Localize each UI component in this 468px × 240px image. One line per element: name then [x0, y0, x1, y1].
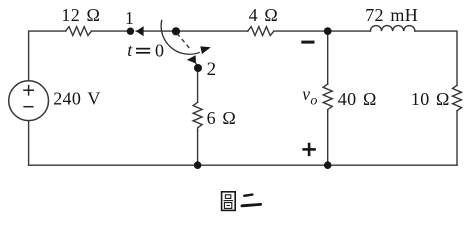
switch dashed blade toward position 2	[177, 33, 191, 50]
wire top-left segment	[29, 31, 66, 81]
switch blade arrowhead at position 2	[187, 55, 196, 63]
voltage source plus mark	[23, 85, 34, 96]
svg-text:12 Ω: 12 Ω	[61, 5, 100, 25]
wire resistor to node 1	[91, 30, 127, 32]
junction dot bottom right (node vo+)	[324, 161, 332, 169]
wire 4 ohm to inductor	[274, 30, 371, 32]
resistor R 10 ohm	[453, 85, 462, 111]
resistor R 6 ohm	[193, 102, 202, 131]
resistor R 40 ohm	[323, 84, 332, 111]
svg-text:0: 0	[155, 40, 164, 60]
caption figure two (CJK drawn)	[222, 192, 261, 211]
svg-text:40 Ω: 40 Ω	[338, 89, 377, 109]
glyph er (two) top stroke	[244, 195, 252, 196]
glyph tu lower inner dash	[227, 205, 230, 207]
inductor L 72 mH	[370, 26, 414, 32]
glyph tu lower box	[224, 203, 231, 209]
svg-text:2: 2	[207, 59, 217, 80]
wire left below source	[28, 121, 30, 166]
switch motion arc arrowhead	[200, 46, 211, 54]
switch pivot dot	[172, 27, 180, 35]
wire switch node 2 down to 6 ohm	[197, 72, 199, 103]
svg-text:1: 1	[125, 8, 134, 28]
svg-text:t: t	[127, 40, 133, 60]
voltage source minus mark	[23, 106, 33, 108]
switch node 1 dot	[127, 28, 134, 35]
glyph er (two) bottom stroke	[242, 204, 261, 205]
junction dot top (node vo-)	[324, 27, 332, 35]
polarity plus of vo	[302, 143, 315, 156]
wire inductor to top-right corner and down	[415, 31, 457, 85]
wire bottom	[29, 164, 457, 166]
switch blade stub to node 2	[195, 62, 198, 67]
resistor R 4 ohm	[248, 27, 274, 36]
svg-text:72 mH: 72 mH	[365, 5, 418, 25]
glyph tu (figure) outer box	[222, 192, 236, 211]
wire 40 ohm to bottom	[327, 111, 329, 165]
wire right branch bottom	[456, 111, 458, 165]
wire middle branch 40 ohm top	[327, 31, 329, 84]
label t=0 : equals bars	[136, 48, 150, 50]
wire node 1 to 4 ohm (switch blade along wire)	[136, 30, 248, 32]
glyph tu inner mouth	[225, 195, 230, 199]
junction dot bottom left	[194, 161, 202, 169]
switch motion arc	[161, 20, 200, 54]
wire 6 ohm to bottom	[197, 131, 199, 165]
glyph tu middle bar	[224, 200, 233, 202]
switch node 2 dot	[194, 64, 202, 72]
svg-text:6 Ω: 6 Ω	[207, 108, 237, 128]
switch blade arrowhead at position 1	[136, 26, 144, 36]
svg-text:10 Ω: 10 Ω	[411, 89, 450, 109]
resistor R 12 ohm	[66, 27, 92, 36]
svg-text:4 Ω: 4 Ω	[249, 5, 279, 25]
voltage source V 240 V circle	[9, 81, 49, 121]
polarity minus of vo	[301, 41, 314, 44]
svg-text:240 V: 240 V	[53, 89, 101, 109]
